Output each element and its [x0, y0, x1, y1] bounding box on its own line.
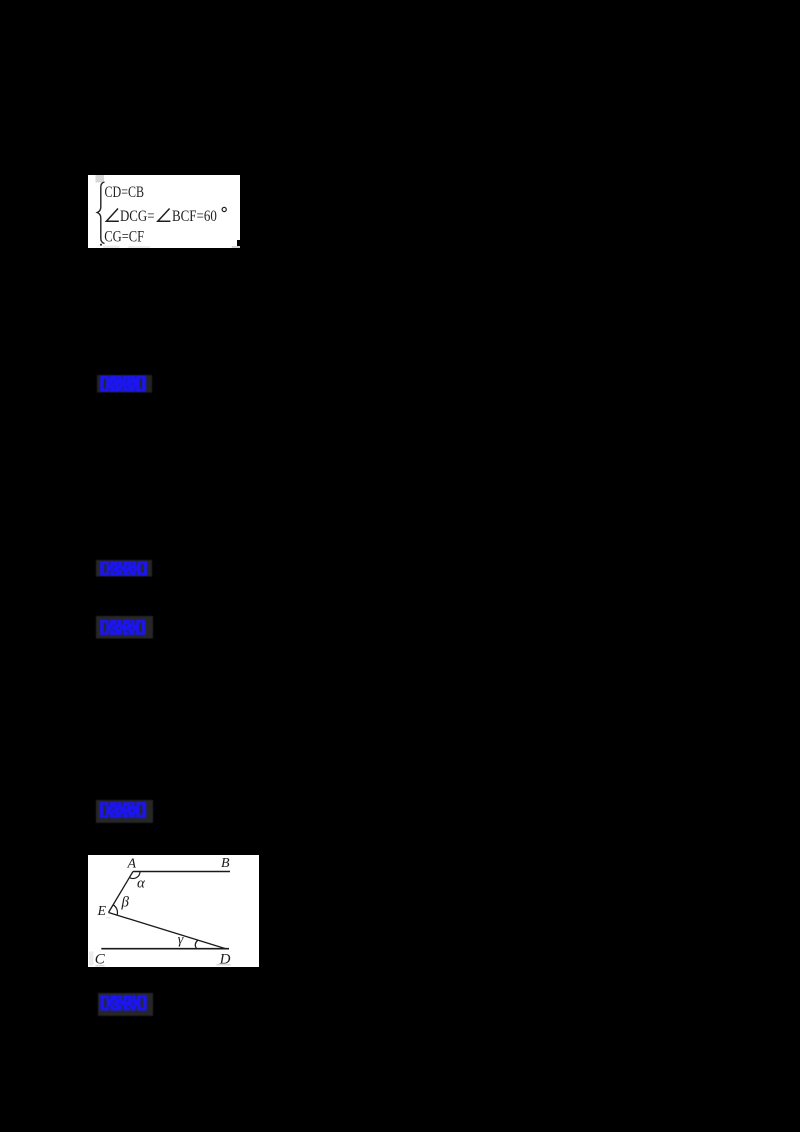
- svg-text:CD=CB: CD=CB: [105, 184, 145, 201]
- svg-text:E: E: [97, 904, 107, 919]
- svg-text:BCF=60: BCF=60: [172, 208, 217, 225]
- svg-text:γ: γ: [178, 933, 184, 948]
- svg-text:α: α: [137, 876, 146, 892]
- svg-text:A: A: [127, 857, 137, 872]
- svg-text:DCG=: DCG=: [120, 208, 155, 225]
- svg-text:β: β: [121, 895, 130, 911]
- svg-text:C: C: [95, 952, 106, 967]
- svg-text:B: B: [221, 856, 230, 871]
- svg-text:CG=CF: CG=CF: [104, 229, 144, 246]
